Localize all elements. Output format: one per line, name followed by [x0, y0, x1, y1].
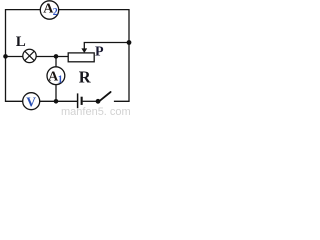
svg-text:V: V [26, 94, 36, 109]
svg-text:2: 2 [53, 7, 58, 18]
svg-text:1: 1 [58, 75, 63, 86]
svg-text:L: L [16, 34, 26, 50]
svg-text:R: R [79, 67, 92, 86]
svg-text:P: P [95, 45, 104, 60]
svg-text:manfen5. com: manfen5. com [61, 106, 131, 115]
